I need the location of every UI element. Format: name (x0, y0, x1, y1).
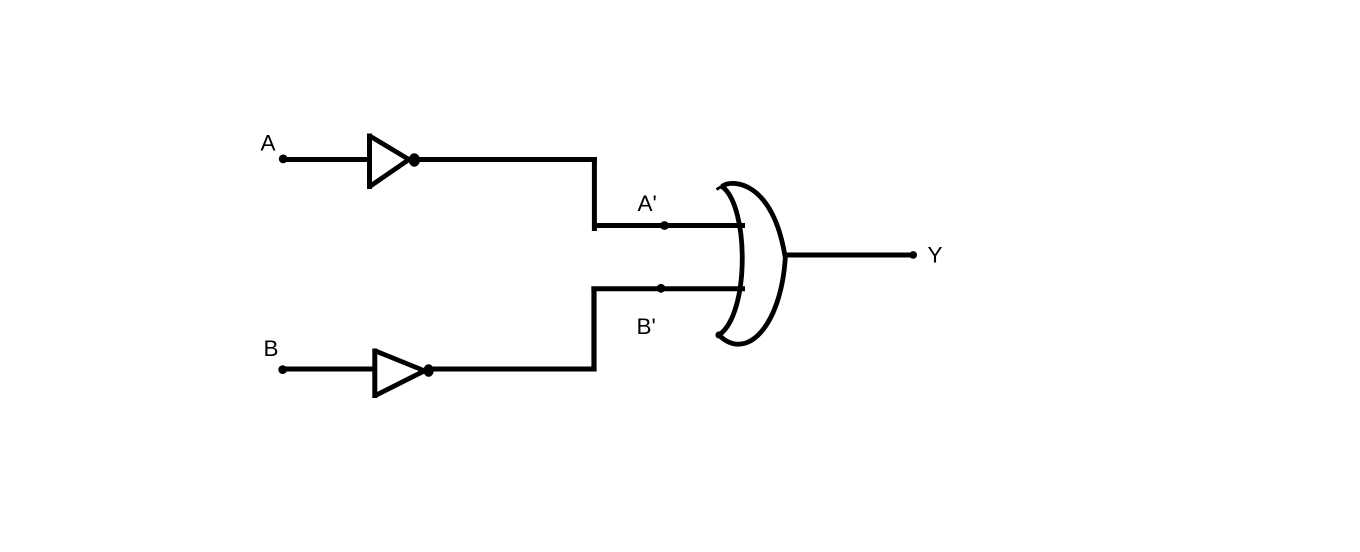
wire U1 output horizontal (414, 157, 597, 162)
svg-text:B': B' (637, 314, 656, 339)
wire A input to inverter U1 (283, 157, 372, 162)
svg-text:A': A' (638, 191, 657, 216)
OR gate U3 outer arc (719, 183, 785, 344)
node Y output dot (909, 251, 917, 259)
inverter U1 triangle (369, 134, 409, 190)
OR gate top tip cross mark (717, 183, 728, 190)
wire A' horizontal to OR gate (592, 223, 745, 228)
inverter U1 output dot (409, 153, 420, 167)
wire B' horizontal to OR gate (591, 286, 745, 291)
node B' dot (657, 284, 666, 293)
wire B input to inverter U2 (283, 367, 377, 372)
inverter U2 output dot (424, 364, 434, 377)
wire U2 output horizontal (428, 367, 597, 372)
svg-text:B: B (264, 336, 279, 361)
node A' dot (660, 221, 669, 230)
node A input dot (279, 155, 288, 164)
node B input dot (278, 365, 287, 374)
wire B vertical rise (591, 287, 596, 372)
svg-text:A: A (261, 131, 276, 156)
OR gate U3 inner arc (719, 187, 742, 336)
svg-text:Y: Y (928, 243, 943, 268)
OR gate bottom tip blob (715, 331, 722, 338)
wire A vertical drop (592, 157, 597, 231)
wire Y output (785, 253, 911, 258)
inverter U2 triangle (374, 349, 424, 399)
